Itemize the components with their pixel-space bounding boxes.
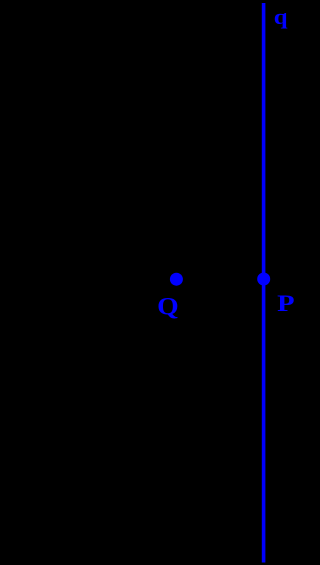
line q — [262, 3, 266, 563]
svg-text:Q: Q — [157, 292, 179, 321]
svg-text:P: P — [277, 290, 295, 316]
point Q — [170, 273, 183, 286]
svg-text:q: q — [274, 5, 288, 29]
point P — [257, 273, 270, 286]
